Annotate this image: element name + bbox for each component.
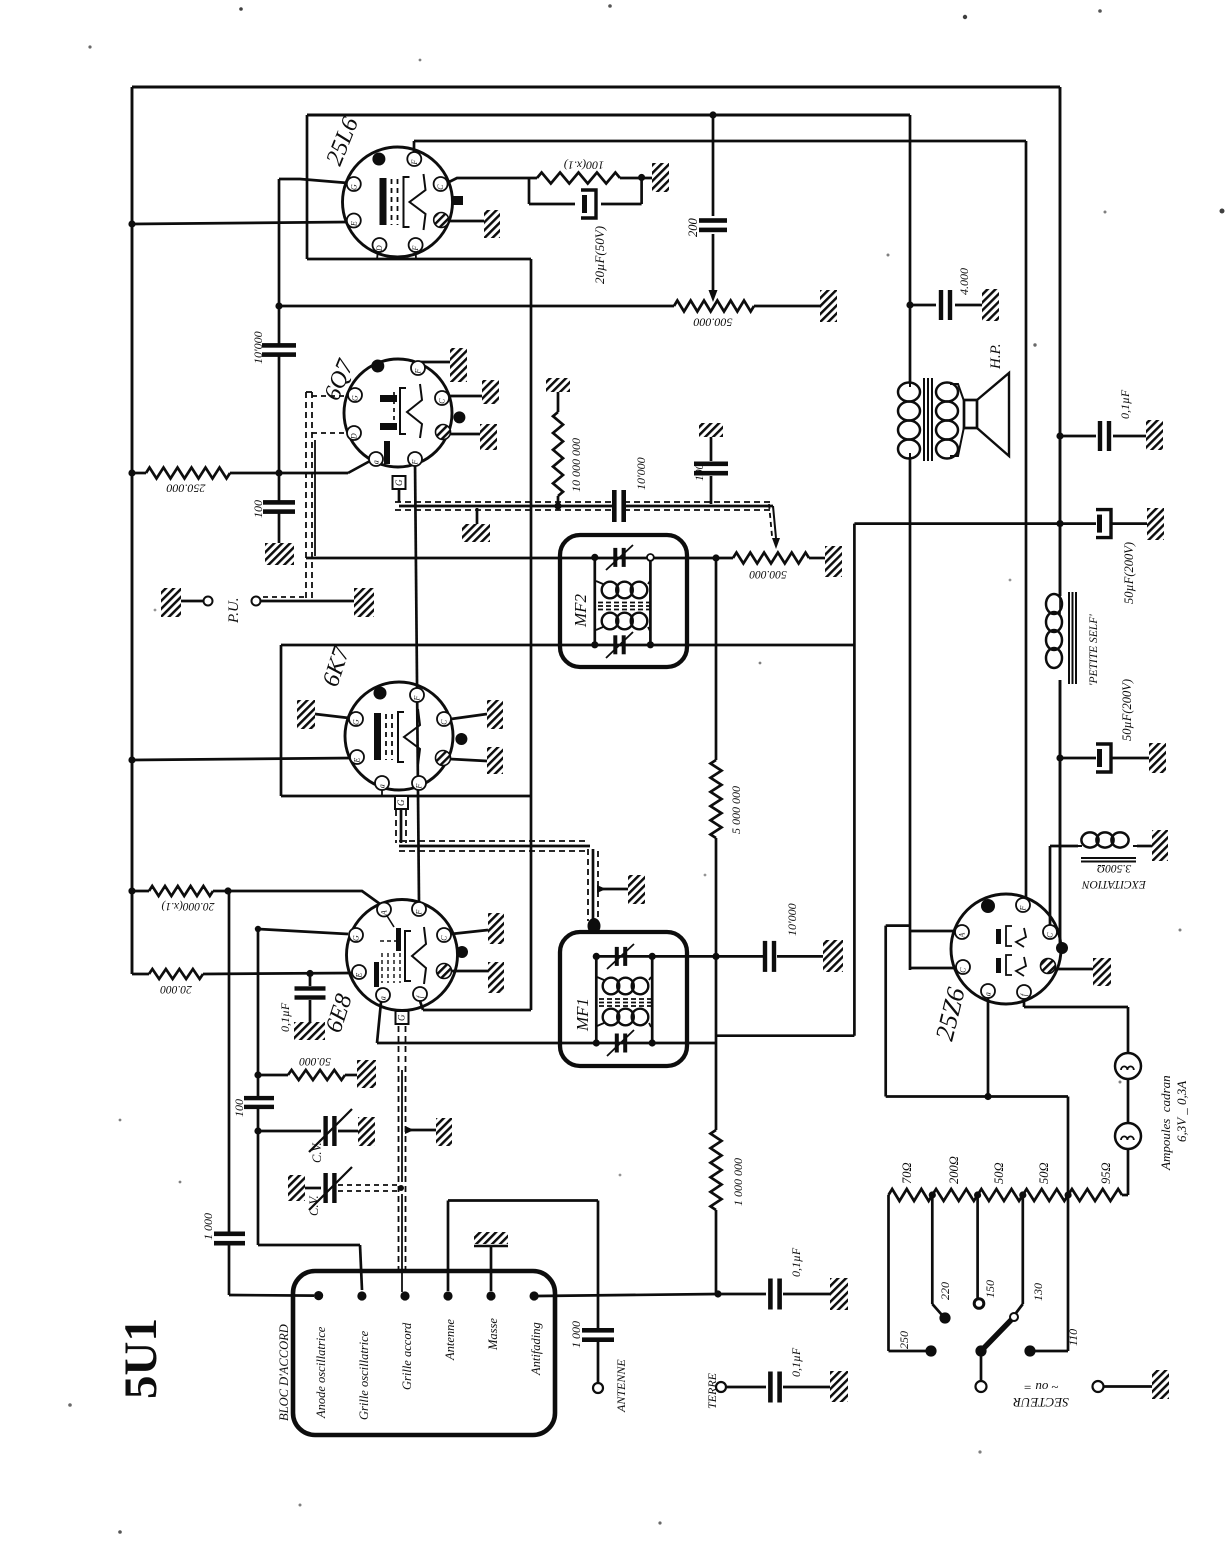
svg-text:500.000: 500.000: [749, 568, 787, 580]
wire osc anode drop x=229: [228, 891, 380, 1232]
wire heater return y=1096: [886, 1095, 1068, 1098]
resistor 50.000: [254, 1070, 357, 1080]
wire tap 150: [976, 1195, 979, 1299]
wire plate row / 6Q7 box top: [279, 305, 820, 308]
svg-text:D: D: [375, 245, 384, 252]
ground secteur: [1152, 1370, 1169, 1399]
label 10.000.000: [569, 438, 583, 492]
label MF1: [573, 998, 592, 1032]
tube 6Q7 key dot: [371, 360, 384, 373]
tube 6K7 pin C: [437, 712, 451, 726]
ground detector cap: [823, 940, 843, 972]
svg-text:C.V.: C.V.: [307, 1195, 321, 1216]
ground 6K7 hatched pin: [450, 747, 503, 774]
svg-text:Grille accord: Grille accord: [400, 1322, 414, 1390]
label P.U.: [226, 597, 242, 624]
capacitor 10.000 detector: [763, 941, 823, 972]
label 1.000 anode: [201, 1213, 215, 1240]
resistor 20.000: [132, 969, 352, 979]
svg-text:50Ω: 50Ω: [992, 1162, 1006, 1184]
node junction border y436: [1056, 432, 1063, 439]
tube 25Z6 side dot: [1056, 942, 1068, 954]
svg-text:'PETITE SELF': 'PETITE SELF': [1088, 614, 1100, 686]
tube 25L6 pin F2: [409, 238, 423, 252]
tube 6Q7 side dot: [453, 411, 465, 423]
label H.P.: [988, 343, 1004, 370]
ground capacitor 4000: [982, 289, 999, 321]
svg-text:0,1µF: 0,1µF: [278, 1002, 292, 1032]
wire 25L6 box left: [306, 115, 309, 259]
ground 50uF lower: [1149, 743, 1166, 773]
svg-text:150: 150: [983, 1280, 997, 1298]
svg-text:a: a: [379, 996, 388, 1000]
svg-text:10 000 000: 10 000 000: [569, 438, 583, 492]
resistor 500.000 volume pot: [733, 553, 825, 564]
svg-text:1 000: 1 000: [201, 1213, 215, 1240]
label 6.3V 0.3A: [1174, 1081, 1189, 1142]
wire P.U. to shield: [261, 597, 354, 601]
node junction left rail y=760: [128, 756, 135, 763]
transformer HP primary: [898, 383, 920, 459]
ground 6Q7 hatched pin: [450, 424, 497, 450]
resistor dropper 95ohm: [1068, 1189, 1122, 1201]
tube 6K7 pin hatched: [436, 751, 451, 766]
label 1.000 antenne: [569, 1321, 583, 1348]
capacitor 50uF(200V) lower: [1060, 744, 1149, 772]
wire MF1 right vertical: [651, 956, 654, 1043]
svg-text:0,1µF: 0,1µF: [789, 1247, 803, 1277]
tube 6K7 key dot: [374, 687, 387, 700]
terminal grille oscillatrice: [357, 1291, 366, 1300]
wire heater rail 25L6 to 25Z6: [414, 141, 1026, 903]
tube 6Q7 pin hatched: [436, 425, 451, 440]
label 50uF(200V) upper: [1122, 542, 1136, 604]
label 10.000 coupling: [251, 331, 265, 364]
tube 6E8: [347, 900, 458, 1011]
label EXCITATION: [1081, 878, 1147, 890]
label 50ohm a: [992, 1162, 1006, 1184]
terminal masse: [486, 1291, 495, 1300]
tube 6E8 pin G: [349, 928, 363, 942]
node MF2 bottom-left: [591, 641, 598, 648]
ground 6Q7 pinC: [449, 380, 499, 404]
tube 6Q7 pin C: [435, 391, 449, 405]
terminal anode oscillatrice: [314, 1291, 323, 1300]
tube 25L6 pin D: [373, 238, 387, 252]
wire 6K7 box left: [280, 645, 283, 796]
terminal P.U. b: [252, 597, 261, 606]
svg-text:Ampoules cadran: Ampoules cadran: [1158, 1075, 1173, 1171]
svg-text:10'000: 10'000: [251, 331, 265, 364]
node junction y115 x713: [709, 111, 716, 118]
capacitor 1.000 anode: [214, 1232, 314, 1296]
node junction x279 y306: [275, 302, 282, 309]
ground 6Q7 grid cap: [265, 543, 294, 565]
label 0.1uF 6E8: [278, 1002, 292, 1032]
capacitor 10.000 coupling: [262, 343, 296, 357]
label 0.1uF terre: [789, 1347, 803, 1377]
inductor MF1 secondary: [597, 1009, 651, 1027]
ground 0.1uF 6E8: [294, 1022, 325, 1040]
label grille accord: [400, 1322, 414, 1390]
wire tap 130: [1016, 1195, 1023, 1313]
svg-text:500.000: 500.000: [694, 316, 733, 330]
svg-text:0,1µF: 0,1µF: [789, 1347, 803, 1377]
label 1.000.000: [731, 1158, 745, 1206]
resistor 500.000 tone pot: [674, 301, 754, 312]
wire 6E8 heater exit: [420, 1001, 531, 1010]
tube 6K7 pin A: [375, 776, 389, 790]
tube 6K7 pin F2: [412, 776, 426, 790]
wire speaker-field drop x=910: [909, 457, 912, 970]
tube 6E8 grid cap square: [396, 1011, 409, 1024]
transformer HP secondary: [936, 383, 964, 459]
tube 25Z6 pin f: [1017, 985, 1031, 999]
terminal grille accord: [400, 1291, 409, 1300]
contact 110: [1024, 1345, 1068, 1356]
wire heater chain 6Q7-6K7-6E8: [415, 460, 419, 903]
capacitor 100 osc: [244, 1096, 274, 1109]
svg-text:50µF(200V): 50µF(200V): [1122, 542, 1136, 604]
ground 25L6 pin: [449, 210, 500, 238]
terminal antenne: [443, 1291, 452, 1300]
svg-text:220: 220: [938, 1282, 952, 1300]
inductor MF1 primary: [597, 977, 651, 994]
label 0.1uF antifading: [789, 1247, 803, 1277]
svg-text:a: a: [378, 784, 387, 788]
label 50ohm b: [1037, 1162, 1051, 1184]
wire 25Z6 anode A lead: [910, 930, 956, 933]
capacitor 20uF(50V): [581, 190, 596, 218]
tube 6E8 pin hatched: [437, 964, 452, 979]
svg-text:1 000: 1 000: [569, 1321, 583, 1348]
svg-text:G: G: [397, 1014, 407, 1021]
label 10.000 AVC: [634, 457, 648, 490]
ground 6E8 pinC: [451, 913, 504, 944]
label 220: [938, 1282, 952, 1300]
svg-text:F: F: [411, 246, 420, 252]
ground CV1: [358, 1117, 375, 1146]
tube 25L6 pin hatched: [434, 213, 449, 228]
label 6E8: [321, 991, 358, 1036]
label MF2: [571, 593, 590, 628]
node junction border y758: [1056, 754, 1063, 761]
ground masse chassis: [474, 1232, 508, 1291]
contact 250: [925, 1345, 936, 1356]
tube 6E8 pin a: [376, 988, 390, 1002]
ground 0.1uF top: [1146, 420, 1163, 450]
node tap 150: [974, 1191, 981, 1198]
svg-text:F: F: [410, 160, 419, 166]
tube 25Z6: [951, 894, 1061, 1004]
resistor 100(x.1) 25L6 grid stopper: [447, 173, 657, 205]
transformer MF1 box: [560, 932, 687, 1066]
wire tap 250: [889, 1195, 928, 1351]
wire 25Z6 cathode drop: [987, 997, 990, 1097]
node junction x279 y473: [275, 469, 282, 476]
svg-text:Antenne: Antenne: [443, 1319, 457, 1361]
label 0.1uF top: [1118, 389, 1132, 419]
tube 25L6 pin G: [347, 177, 361, 191]
tube 6Q7 pin D: [347, 426, 361, 440]
svg-text:C: C: [438, 398, 447, 404]
tube 25Z6 key dot: [981, 899, 995, 913]
svg-text:70Ω: 70Ω: [900, 1162, 914, 1184]
svg-text:100: 100: [251, 500, 265, 518]
resistor dropper 70ohm: [889, 1189, 933, 1201]
wire tap 220: [932, 1195, 942, 1315]
svg-text:F: F: [1019, 906, 1028, 912]
tube 25Z6 pin C: [1043, 925, 1057, 939]
contact 150: [974, 1299, 984, 1309]
svg-text:100: 100: [694, 464, 706, 482]
capacitor trimmer MF1 bottom: [607, 1030, 634, 1056]
svg-text:0,1µF: 0,1µF: [1118, 389, 1132, 419]
svg-text:Antifading: Antifading: [529, 1322, 543, 1376]
node MF1 top-right: [649, 953, 656, 960]
node junction y1096: [984, 1093, 991, 1100]
label anode oscillatrice: [314, 1326, 328, 1419]
svg-text:C: C: [436, 184, 445, 190]
label antifading: [529, 1322, 543, 1376]
svg-text:3.500Ω: 3.500Ω: [1097, 862, 1132, 874]
wire cathode rail to 25L6: [132, 222, 348, 224]
svg-text:G: G: [352, 935, 361, 941]
ground shield MF1: [597, 875, 645, 904]
svg-text:G: G: [351, 395, 360, 401]
wire cathode rail to 6K7: [132, 758, 352, 760]
label 70ohm: [900, 1162, 914, 1184]
tube 25Z6 pin a: [981, 984, 995, 998]
label 500.000 pot: [694, 316, 733, 330]
inductor petite self: [1046, 592, 1076, 684]
node junction left rail y473: [128, 469, 135, 476]
svg-text:130: 130: [1031, 1283, 1045, 1301]
label 6K7: [318, 643, 355, 690]
node junction x258 y929: [255, 926, 261, 932]
label 130: [1031, 1283, 1045, 1301]
wire MF1 bottom row: [377, 1042, 716, 1045]
svg-text:20.000: 20.000: [160, 983, 192, 995]
svg-text:50µF(200V): 50µF(200V): [1120, 679, 1134, 741]
label 4000: [957, 268, 971, 295]
wire antenne link: [448, 1201, 598, 1329]
ground grid shield: [405, 1118, 452, 1146]
wire B+ vertical x=854: [853, 524, 856, 1036]
capacitor 200: [699, 115, 727, 302]
node MF1 top-left: [593, 953, 600, 960]
contact 220: [939, 1312, 950, 1323]
ground 50uF upper: [1147, 508, 1164, 540]
wire 6K7 box bottom: [281, 790, 531, 796]
svg-text:10'000: 10'000: [785, 903, 799, 936]
svg-text:Grille oscillatrice: Grille oscillatrice: [357, 1330, 371, 1420]
svg-text:A: A: [958, 933, 967, 939]
node tap 110: [1065, 1191, 1072, 1198]
node junction border y523: [1056, 520, 1063, 527]
capacitor CV2 variable: [288, 1167, 352, 1210]
svg-text:A: A: [380, 910, 389, 916]
capacitor 50uF(200V) upper: [1096, 510, 1147, 538]
ground for grid stopper: [652, 163, 669, 192]
tube 6K7 side dot: [455, 733, 467, 745]
label 50.000: [299, 1055, 331, 1067]
node junction 10M bus: [554, 502, 561, 509]
wire shielded bus 6K7 grid: [396, 810, 601, 934]
resistor 20.000(x.1): [132, 886, 228, 896]
svg-text:F: F: [413, 696, 422, 702]
svg-text:5 000 000: 5 000 000: [729, 786, 743, 834]
transformer HP core: [924, 378, 932, 461]
label 50uF(200V) lower: [1120, 679, 1134, 741]
ground P.U. right: [354, 588, 374, 617]
resistor dropper 50ohm b: [1023, 1189, 1068, 1201]
label 6Q7: [319, 355, 359, 404]
switch arm: [975, 1313, 1018, 1381]
wire lamp to dropper: [1122, 1149, 1128, 1195]
ground 6K7 pinC: [451, 700, 503, 729]
tube 25L6 pin E: [347, 214, 361, 228]
ground 6K7 grid: [297, 700, 349, 729]
label 100 6Q7: [251, 500, 265, 518]
label 5U1: [115, 1318, 167, 1399]
svg-text:BLOC D'ACCORD: BLOC D'ACCORD: [277, 1324, 291, 1421]
transformer MF2 core: [598, 603, 652, 610]
node MF2 top-left: [591, 554, 598, 561]
capacitor CV1 variable: [254, 1109, 358, 1152]
node MF1 bottom-right: [649, 1039, 656, 1046]
wire screen feed row y=523: [854, 522, 1096, 525]
node tap 130: [1019, 1191, 1026, 1198]
label masse: [486, 1318, 500, 1351]
wire shielded AVC bus: [395, 489, 780, 549]
label 100(x.1): [564, 159, 604, 173]
capacitor 100 6Q7 grid: [263, 500, 295, 514]
label 100 right: [694, 464, 706, 482]
svg-text:20.000(x.1): 20.000(x.1): [161, 900, 214, 912]
wire volume row y=558: [306, 557, 733, 560]
svg-text:C: C: [440, 719, 449, 725]
capacitor 0.1uF antifading: [718, 1279, 830, 1310]
tube 6K7: [345, 682, 453, 790]
node junction x716 y558: [712, 554, 719, 561]
svg-text:F: F: [414, 369, 423, 375]
ground volume pot: [825, 546, 842, 577]
svg-text:100(x.1): 100(x.1): [564, 159, 604, 173]
tube 25Z6 pin F: [1016, 898, 1030, 912]
node junction x716 y956: [712, 953, 719, 960]
tube 25L6 key dot: [372, 153, 385, 166]
label SECTEUR: [1013, 1380, 1069, 1410]
lamp ampoule 2: [1115, 1123, 1141, 1149]
speaker HP: [964, 373, 1009, 456]
svg-text:50.000: 50.000: [299, 1055, 331, 1067]
node junction x228 y891: [224, 887, 231, 894]
tube 6K7 pin F: [410, 688, 424, 702]
module bloc d'accord box: [293, 1271, 555, 1435]
tube 6Q7 pin F2: [408, 452, 422, 466]
capacitor 100 right: [694, 423, 728, 504]
svg-text:Anode oscillatrice: Anode oscillatrice: [314, 1326, 328, 1419]
label 250.000: [167, 482, 206, 496]
wire MF2 right vertical: [649, 557, 652, 644]
wire AVC vertical x=716: [715, 558, 718, 1294]
resistor 1.000.000: [711, 1130, 722, 1210]
svg-text:F: F: [415, 910, 424, 916]
wire 25L6 grid drop: [279, 179, 348, 543]
wire right border rail (B+ line): [1059, 87, 1062, 944]
svg-text:MF2: MF2: [571, 593, 590, 628]
wire antifading row: [538, 1294, 718, 1296]
node MF1 bottom-left: [593, 1039, 600, 1046]
terminal secteur line: [1093, 1381, 1153, 1392]
svg-text:250.000: 250.000: [167, 482, 206, 496]
resistor dropper 200ohm: [932, 1189, 977, 1201]
resistor 10.000.000: [546, 378, 570, 504]
resistor dropper 50ohm a: [978, 1189, 1023, 1201]
svg-text:5U1: 5U1: [115, 1318, 167, 1399]
label PETITE SELF: [1088, 614, 1100, 686]
wire left border rail: [131, 87, 134, 974]
svg-text:E: E: [353, 758, 362, 764]
svg-text:G: G: [396, 799, 406, 806]
terminal antifading: [530, 1291, 539, 1300]
label ampoules cadran: [1158, 1075, 1173, 1171]
label 100 osc: [232, 1099, 246, 1117]
label 200: [686, 218, 700, 238]
svg-text:250: 250: [897, 1331, 911, 1349]
inductor MF2 secondary: [596, 613, 650, 631]
ground 6E8 hatched pin: [451, 962, 504, 993]
lamp ampoule 1: [1115, 1053, 1141, 1079]
wire lamp link: [1127, 1079, 1130, 1123]
svg-text:a: a: [984, 992, 993, 996]
label TERRE: [705, 1372, 719, 1409]
svg-text:~ ou =: ~ ou =: [1023, 1380, 1058, 1395]
terminal TERRE: [716, 1382, 726, 1392]
wire CV2 to grid dashed: [338, 1185, 404, 1191]
tube 6K7 pin G: [349, 712, 363, 726]
label 20.000(x.1): [161, 900, 214, 912]
ground 25Z6: [1055, 958, 1111, 986]
svg-text:G: G: [352, 719, 361, 725]
ground excitation: [1152, 830, 1168, 861]
label 20.000: [160, 983, 192, 995]
svg-text:TERRE: TERRE: [705, 1372, 719, 1409]
svg-text:ANTENNE: ANTENNE: [614, 1359, 628, 1413]
ground P.U. left: [161, 588, 203, 617]
wire MF1 top row: [596, 955, 763, 958]
resistor 250.000: [132, 461, 370, 479]
wire field coil feed: [1050, 846, 1078, 927]
wire osc grid drop x=258: [258, 929, 362, 1290]
capacitor trimmer MF2 top: [606, 545, 633, 570]
svg-text:100: 100: [232, 1099, 246, 1117]
svg-text:H.P.: H.P.: [988, 343, 1004, 370]
svg-text:110: 110: [1066, 1329, 1080, 1346]
tube 6Q7: [344, 359, 452, 467]
tube 6K7 pin E: [350, 750, 364, 764]
terminal secteur pole: [976, 1381, 987, 1392]
svg-text:20µF(50V): 20µF(50V): [592, 226, 607, 284]
wire screen row y=645: [281, 644, 854, 647]
svg-text:G: G: [394, 479, 404, 486]
tube 25L6 pin F: [407, 152, 421, 166]
svg-text:C: C: [959, 967, 968, 973]
tube 25L6: [343, 147, 464, 257]
tube 6E8 pin E: [352, 965, 366, 979]
terminal P.U. a: [204, 597, 213, 606]
